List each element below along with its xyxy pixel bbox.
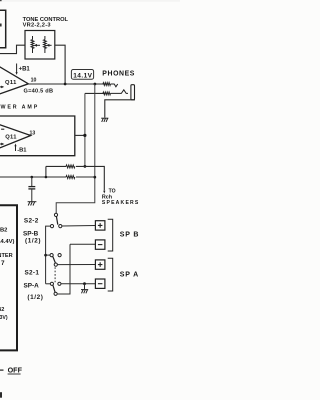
- wire capacitor to ground: [31, 189, 33, 202]
- wire feed to S2-1b left contact: [46, 283, 51, 285]
- svg-text:(1/2): (1/2): [27, 294, 43, 301]
- voltage label box 14.1V: [71, 70, 93, 80]
- node capacitor junction: [31, 176, 34, 179]
- svg-text:S2-1: S2-1: [25, 270, 40, 277]
- inverting input dash: [1, 128, 4, 130]
- switch S2-2 lever: [56, 216, 57, 224]
- potentiometer VR2-2: [31, 36, 40, 53]
- text fragment inside top-left box: [0, 24, 2, 27]
- switch S2-2 fixed contacts: [50, 225, 53, 228]
- svg-text:(1/2): (1/2): [25, 237, 41, 244]
- svg-text:14.1V: 14.1V: [73, 72, 92, 79]
- bracket SP B: [108, 219, 113, 251]
- wire upper row to Rch arrow: [76, 166, 104, 190]
- -B1 supply arrow: [15, 146, 17, 151]
- node S2-1 upper feed: [44, 254, 47, 257]
- switch S2-1a fixed contacts: [50, 254, 53, 257]
- wire jack tip contact: [111, 84, 118, 87]
- switch S2-1b movable contact: [54, 292, 57, 295]
- wire to SP B - terminal: [70, 243, 95, 245]
- svg-text:-B1: -B1: [17, 147, 27, 153]
- svg-text:13: 13: [30, 130, 36, 136]
- input arrow preamp: [0, 86, 2, 88]
- op-amp U1 Q11 (preamp, cut off at left): [0, 63, 28, 96]
- terminal SP A -: [95, 279, 105, 288]
- terminal SP B -: [95, 240, 105, 249]
- wire S2-2 left contact down: [46, 226, 51, 284]
- wire S2-2 right contact to SP B +: [62, 225, 96, 228]
- switch S2-1a lever: [53, 257, 56, 264]
- svg-text:3V): 3V): [0, 315, 8, 321]
- svg-text:PHONES: PHONES: [102, 71, 135, 78]
- bottom-left mark: [0, 392, 2, 398]
- node resistor junction: [93, 176, 96, 179]
- svg-text:10: 10: [31, 77, 37, 83]
- svg-text:S2-2: S2-2: [24, 218, 39, 225]
- svg-text:Q11: Q11: [5, 135, 17, 141]
- wire output riser (up to phones, down to divider): [84, 93, 86, 166]
- wire lower row right: [76, 176, 95, 178]
- wire phones junction down-left to speaker switch: [56, 84, 95, 213]
- block box U-top-left (cut off at canvas edge): [0, 10, 6, 48]
- ground chassis (phones): [101, 118, 108, 122]
- wire feed to S2-1 upper left contact: [46, 254, 50, 256]
- svg-text:SP-B: SP-B: [23, 230, 39, 237]
- resistor R-divider-lower: [66, 176, 75, 179]
- wire divider upper row: [46, 165, 66, 167]
- wire S2-1b right contact to SP A -: [61, 283, 95, 285]
- svg-text:B2: B2: [0, 307, 4, 313]
- svg-text:SPEAKERS: SPEAKERS: [102, 200, 140, 206]
- svg-text:SP-A: SP-A: [24, 283, 40, 290]
- node ground junction SP A -: [83, 282, 86, 285]
- svg-text:G=40.5 dB: G=40.5 dB: [24, 88, 54, 94]
- scan artifact top line: [0, 0, 180, 2]
- switch S2-1b fixed contacts: [50, 282, 53, 285]
- wire input from left edge to tone control box: [0, 45, 25, 53]
- switch gang dashed link: [54, 267, 56, 282]
- phone jack J1: [131, 85, 135, 100]
- svg-text:OFF: OFF: [8, 366, 23, 375]
- svg-text:(14.4V): (14.4V): [0, 239, 14, 245]
- wire riser between divider rows: [45, 166, 47, 177]
- svg-text:VR2-2,2-3: VR2-2,2-3: [23, 22, 51, 28]
- svg-text:+B1: +B1: [19, 67, 31, 73]
- switch S2-2 movable contact: [54, 213, 57, 216]
- capacitor C1: [28, 187, 35, 189]
- legend dash: [0, 369, 4, 371]
- svg-text:SP A: SP A: [120, 272, 139, 279]
- wire tone box output to feedback node: [55, 45, 65, 84]
- ground chassis (capacitor): [28, 202, 37, 206]
- potentiometer VR2-3: [44, 36, 52, 53]
- terminal SP A +: [95, 260, 105, 269]
- wire S2-1a movable to SP A +: [57, 264, 95, 266]
- svg-text:Q11: Q11: [5, 80, 17, 86]
- wire jack ring contact: [111, 90, 129, 94]
- wire divider lower row: [0, 176, 66, 178]
- wire power amp output: [75, 134, 85, 136]
- node riser junction: [45, 176, 48, 179]
- switch S2-1b lever: [53, 285, 55, 292]
- terminal SP B +: [95, 221, 105, 230]
- op-amp U2 Q11 (power amp, cut off at left): [0, 123, 31, 151]
- svg-text:7: 7: [1, 260, 5, 267]
- node phones junction: [94, 83, 97, 86]
- power supply block box (cut off at left): [0, 205, 17, 350]
- node power amp output: [83, 134, 86, 137]
- power amp block box (cut off at left): [0, 116, 75, 156]
- node feedback junction: [64, 83, 67, 86]
- wire preamp output bus y=84: [28, 83, 103, 85]
- svg-text:NTER: NTER: [0, 253, 13, 259]
- resistor R-divider-upper: [66, 165, 75, 168]
- svg-text:B2: B2: [0, 228, 7, 234]
- tone control box: [25, 31, 55, 60]
- svg-text:SP B: SP B: [120, 232, 139, 239]
- wire capacitor lead: [31, 177, 33, 186]
- node top of divider: [84, 165, 87, 168]
- resistor R-phones-L: [103, 83, 111, 86]
- +B1 supply arrow: [16, 64, 18, 73]
- wire ground drop: [84, 284, 86, 290]
- wire phones R-channel feed: [85, 92, 104, 94]
- wire S2-1b movable up to SP B -: [57, 244, 70, 294]
- switch S2-1a movable contact: [54, 263, 57, 266]
- bracket SP A: [108, 258, 113, 291]
- svg-text:POWER AMP: POWER AMP: [0, 105, 39, 111]
- ground chassis (speaker return): [81, 290, 88, 294]
- resistor R-phones-R: [103, 92, 111, 95]
- input arrow power amp: [0, 143, 2, 145]
- wire jack sleeve to ground: [105, 100, 135, 118]
